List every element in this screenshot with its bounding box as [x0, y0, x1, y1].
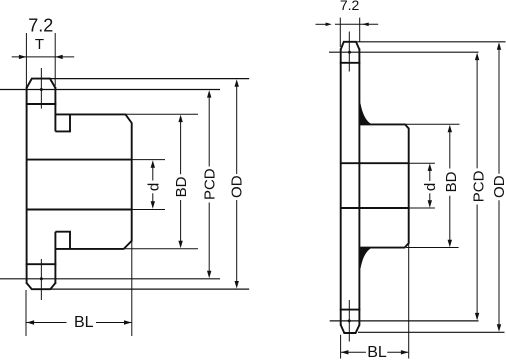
right sprocket: bottom tooth root line — [340, 309, 361, 311]
left sprocket: bottom tooth root line — [26, 263, 57, 265]
dimension d left: top arrowhead — [151, 160, 155, 168]
dimension T=7.2 left: left extension line — [25, 33, 27, 87]
left sprocket: bore bottom line — [27, 209, 132, 211]
dimension BD left: top arrowhead — [178, 115, 182, 123]
dimension d left: top tail — [152, 163, 154, 181]
left sprocket: hub-top extension line (BD level) — [126, 113, 198, 115]
dimension PCD right: bottom arrowhead — [475, 313, 479, 321]
dimension OD left: upper line — [236, 83, 238, 175]
left sprocket: upper weld recess — [55, 114, 70, 131]
dimension T=7.2 left: left arrowhead — [19, 55, 27, 59]
dimension BD right: bottom arrowhead — [448, 240, 452, 248]
dimension BD left: lower line — [180, 200, 182, 245]
svg-text:T: T — [35, 36, 44, 53]
right sprocket: bore-bottom extension line (d level) — [409, 207, 435, 209]
dimension OD left: top arrowhead — [235, 79, 239, 87]
dimension OD left: lower line — [236, 200, 238, 286]
dimension T=7.2 left: dimension line — [12, 56, 74, 58]
right sprocket: bottom tooth center dot — [348, 319, 351, 322]
svg-text:BD: BD — [173, 176, 190, 197]
dimension BL right: left segment — [341, 351, 366, 353]
left sprocket: OD extension line bottom — [50, 288, 249, 290]
dimension T=7.2 left: right arrowhead — [55, 55, 63, 59]
right sprocket: top tooth center dot — [348, 51, 351, 54]
dimension d left: bottom arrowhead — [151, 201, 155, 209]
right sprocket: top tooth root line — [340, 62, 361, 64]
dimension OD right: top arrowhead — [497, 42, 501, 50]
left sprocket: pitch line through top tooth (PCD level) — [0, 89, 220, 91]
dimension PCD left: bottom arrowhead — [207, 271, 211, 279]
left sprocket: hub outline — [55, 114, 131, 249]
dimension BD left: upper line — [180, 118, 182, 174]
dimension 7.2 right: right arrowhead — [362, 23, 369, 27]
dimension d right: top arrowhead — [428, 163, 432, 171]
left sprocket: bottom tooth profile — [27, 283, 56, 289]
right sprocket: OD extension line top — [356, 41, 506, 43]
right sprocket: bore-top extension line (d level) — [409, 162, 435, 164]
dimension BD right: upper line — [449, 128, 451, 169]
dimension d right: top tail — [429, 167, 431, 182]
dimension BL right: left extension line — [340, 335, 342, 359]
svg-text:OD: OD — [491, 175, 506, 198]
svg-text:BL: BL — [367, 344, 387, 361]
right sprocket: plate right face — [358, 49, 360, 326]
dimension OD right: lower line — [498, 200, 500, 329]
dimension OD left: bottom arrowhead — [235, 281, 239, 289]
right sprocket: bore top line — [341, 162, 409, 164]
left sprocket: bore-bottom extension line (d level) — [132, 209, 165, 211]
right sprocket: top tooth profile — [341, 42, 360, 50]
right sprocket: bore bottom line — [341, 207, 409, 209]
dimension BD right: lower line — [449, 196, 451, 244]
left sprocket: lower weld recess — [55, 232, 70, 249]
dimension BL left: left segment — [27, 322, 67, 324]
dimension PCD left: lower line — [208, 203, 210, 276]
dimension d left: bottom tail — [152, 193, 154, 206]
dimension BL left: right segment — [96, 322, 131, 324]
dimension PCD right: lower line — [476, 205, 478, 318]
dimension PCD left: top arrowhead — [207, 90, 211, 98]
dimension 7.2 right: left tail — [316, 23, 327, 25]
left sprocket: bore-top extension line (d level) — [132, 159, 165, 161]
dimension d right: bottom arrowhead — [428, 200, 432, 208]
right sprocket: lower weld fillet — [360, 248, 371, 269]
dimension BD left: bottom arrowhead — [178, 241, 182, 249]
dimension OD right: upper line — [498, 46, 500, 174]
dimension BL left: left extension line — [25, 290, 27, 336]
svg-text:PCD: PCD — [202, 168, 219, 200]
dimension BL left: left arrowhead — [27, 320, 34, 324]
svg-text:7.2: 7.2 — [340, 0, 360, 13]
dimension 7.2 right: left extension line — [339, 18, 341, 47]
right sprocket: pitch line through top tooth (PCD level) — [329, 51, 479, 53]
left sprocket: top tooth centerline — [40, 68, 42, 109]
left sprocket: hub-bottom extension line (BD level) — [125, 248, 198, 250]
right sprocket: hub-bottom extension line (BD level) — [406, 247, 459, 249]
left sprocket: bore top line — [27, 159, 132, 161]
right sprocket: top tooth centerline — [348, 32, 350, 72]
svg-text:OD: OD — [229, 175, 246, 198]
left sprocket: pitch line through bottom tooth (PCD level) — [0, 278, 220, 280]
right sprocket: pitch line through bottom tooth (PCD level) — [330, 320, 479, 322]
dimension BL left: right extension line — [131, 242, 133, 337]
left sprocket: plate right face lower segment — [54, 232, 56, 284]
dimension BD right: top arrowhead — [448, 125, 452, 133]
svg-text:BL: BL — [74, 314, 94, 331]
svg-text:d: d — [146, 183, 163, 191]
dimension d right: bottom tail — [429, 193, 431, 205]
right sprocket: hub outline — [360, 124, 408, 247]
dimension PCD right: upper line — [476, 56, 478, 168]
right sprocket: OD extension line bottom — [358, 331, 505, 333]
left sprocket: plate left face — [26, 87, 28, 284]
dimension BL right: left arrowhead — [341, 350, 349, 354]
left sprocket: top tooth profile — [27, 79, 56, 88]
left sprocket: plate right face upper segment — [54, 87, 56, 131]
dimension PCD right: top arrowhead — [475, 53, 479, 61]
left sprocket: top tooth root line — [26, 103, 57, 105]
dimension BL right: right segment — [387, 351, 408, 353]
dimension 7.2 right: left arrowhead — [326, 23, 332, 27]
dimension 7.2 right: right extension line — [359, 18, 361, 42]
right sprocket: bottom tooth profile — [341, 325, 360, 333]
left sprocket: bottom tooth centerline — [40, 259, 42, 300]
dimension PCD left: upper line — [208, 94, 210, 167]
svg-text:7.2: 7.2 — [28, 15, 53, 35]
right sprocket: plate left face — [340, 49, 342, 326]
dimension BL right: right arrowhead — [401, 350, 409, 354]
dimension 7.2 right: dimension line — [335, 23, 378, 25]
left sprocket: bottom tooth center dot — [40, 277, 43, 280]
left sprocket: top tooth center dot — [40, 88, 43, 91]
right sprocket: upper weld fillet — [360, 104, 371, 125]
dimension BL left: right arrowhead — [124, 320, 132, 324]
svg-text:PCD: PCD — [471, 170, 488, 202]
dimension T=7.2 left: right extension line — [54, 33, 56, 86]
dimension BL right: right extension line — [408, 244, 410, 359]
svg-text:d: d — [422, 183, 439, 191]
right sprocket: hub-top extension line (BD level) — [406, 123, 460, 125]
svg-text:BD: BD — [443, 171, 460, 192]
dimension OD right: bottom arrowhead — [497, 324, 501, 332]
left sprocket: OD extension line top — [50, 78, 249, 80]
right sprocket: bottom tooth centerline — [348, 300, 350, 342]
